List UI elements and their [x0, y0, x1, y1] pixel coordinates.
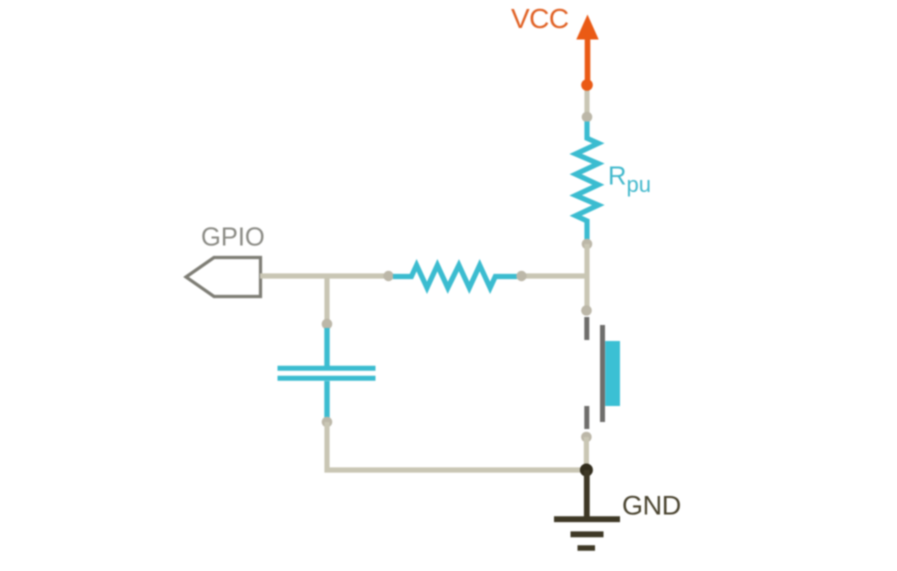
- wire series resistor to node A: [522, 273, 587, 278]
- junction dot Rpu bottom: [582, 239, 593, 250]
- junction dot switch top: [581, 305, 592, 316]
- wire switch bottom to ground node: [584, 437, 589, 470]
- svg-text:pu: pu: [627, 172, 651, 197]
- power VCC arrow: [576, 15, 598, 86]
- ground symbol: [554, 470, 620, 548]
- wire Rpu bottom to node A: [584, 244, 589, 276]
- junction dot series resistor left: [383, 271, 393, 281]
- svg-text:GPIO: GPIO: [201, 224, 265, 252]
- wire node A down to switch: [584, 276, 589, 311]
- resistor Rpu: [576, 122, 651, 240]
- capacitor C1: [278, 328, 376, 418]
- svg-text:R: R: [608, 163, 626, 191]
- svg-text:VCC: VCC: [511, 3, 569, 34]
- resistor R1 (series debounce): [393, 265, 517, 288]
- node ground junction dot: [580, 464, 593, 477]
- node VCC dot: [581, 79, 593, 91]
- junction dot Rpu top: [582, 112, 593, 123]
- junction dot switch bottom: [581, 432, 592, 443]
- pin GPIO symbol: [186, 258, 261, 297]
- svg-text:GND: GND: [622, 491, 681, 521]
- junction dot capacitor top: [322, 319, 333, 330]
- junction dot capacitor bottom: [322, 417, 333, 428]
- junction dot series resistor right: [516, 271, 526, 281]
- wire GPIO to series resistor: [260, 273, 389, 278]
- wire VCC dot to Rpu top: [584, 85, 589, 117]
- wire capacitor bottom to ground rail: [327, 422, 586, 470]
- wire capacitor branch (vertical from horizontal wire): [324, 276, 329, 324]
- switch S1 (pushbutton): [587, 317, 620, 429]
